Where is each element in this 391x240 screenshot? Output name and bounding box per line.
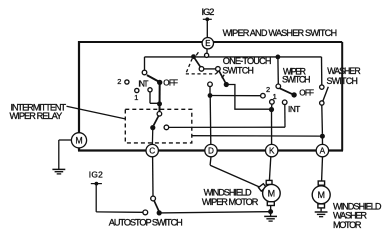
svg-text:M: M [75, 136, 82, 146]
svg-text:D: D [208, 147, 214, 156]
svg-text:SWITCH: SWITCH [327, 76, 358, 86]
svg-text:E: E [205, 39, 210, 48]
svg-text:AUTOSTOP SWITCH: AUTOSTOP SWITCH [109, 218, 183, 228]
svg-text:1: 1 [273, 92, 277, 101]
svg-text:K: K [269, 147, 275, 156]
svg-text:1: 1 [134, 93, 138, 102]
svg-text:WASHER: WASHER [327, 66, 361, 76]
svg-text:2: 2 [266, 85, 270, 94]
svg-text:C: C [149, 147, 155, 156]
svg-text:OFF: OFF [299, 89, 314, 98]
svg-text:A: A [320, 147, 326, 156]
svg-text:INT: INT [288, 105, 300, 114]
svg-text:WINDSHIELD: WINDSHIELD [204, 187, 252, 197]
svg-text:INT: INT [138, 80, 148, 89]
svg-text:2: 2 [117, 77, 121, 86]
svg-text:IG2: IG2 [202, 7, 215, 17]
svg-text:WIPER AND WASHER SWITCH: WIPER AND WASHER SWITCH [223, 28, 338, 38]
svg-text:M: M [268, 189, 276, 199]
svg-text:M: M [317, 190, 325, 200]
svg-text:WIPER MOTOR: WIPER MOTOR [202, 197, 259, 207]
svg-text:WIPER RELAY: WIPER RELAY [10, 111, 63, 121]
svg-text:OFF: OFF [163, 79, 178, 88]
svg-text:SWITCH: SWITCH [222, 65, 254, 75]
svg-text:MOTOR: MOTOR [333, 220, 362, 230]
svg-text:IG2: IG2 [89, 169, 103, 179]
svg-text:SWITCH: SWITCH [282, 75, 311, 85]
